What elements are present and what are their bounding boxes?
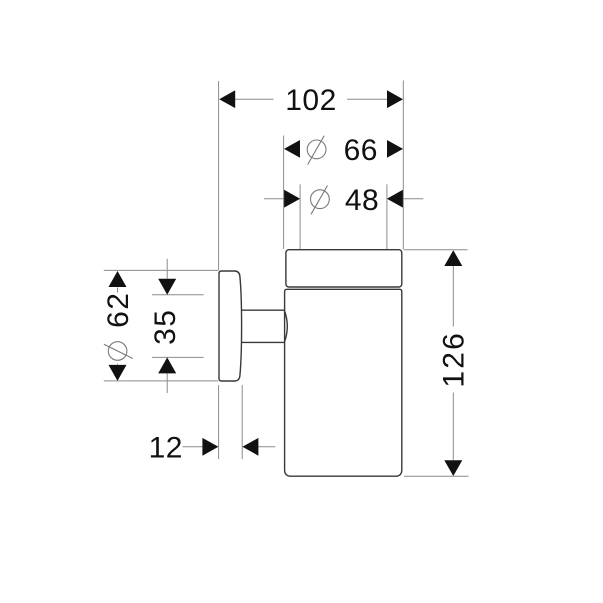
svg-text:48: 48: [345, 184, 379, 217]
svg-text:66: 66: [344, 134, 378, 167]
svg-text:102: 102: [285, 84, 337, 117]
svg-text:12: 12: [149, 432, 183, 465]
svg-text:35: 35: [149, 309, 182, 345]
svg-text:126: 126: [438, 331, 471, 388]
svg-text:62: 62: [102, 292, 135, 328]
